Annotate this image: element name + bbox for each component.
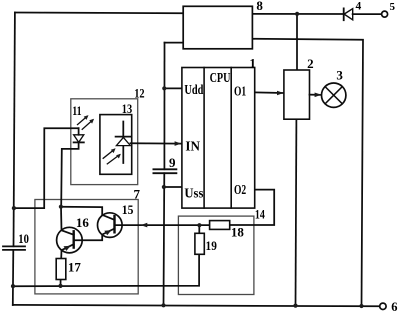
wire: base line from resistor 18 to transistor 15 — [115, 224, 210, 226]
wire: block 2 bottom down to bottom rail — [295, 119, 298, 305]
node: bus / bottom rail — [161, 303, 165, 307]
svg-text:8: 8 — [256, 0, 263, 13]
wire: upper rail from vertical bus to block 8 — [165, 42, 184, 44]
capacitor C10 — [3, 246, 25, 250]
wire: left border vertical (top rail down to bottom rail, gap at C10) — [14, 13, 15, 247]
wire: transistor 15 emitter to transistor 16 base — [74, 234, 102, 240]
svg-text:10: 10 — [18, 231, 29, 246]
box 12 (optocoupler enclosure) — [71, 99, 138, 185]
svg-text:5: 5 — [390, 1, 396, 13]
wire: top rail node down to block 2 — [296, 14, 298, 70]
svg-text:15: 15 — [122, 202, 134, 217]
node: collector junction — [59, 205, 63, 209]
wire: diode 4 to terminal 5 — [353, 13, 382, 15]
svg-text:6: 6 — [391, 300, 397, 313]
box 13 (photodiode enclosure) — [100, 115, 132, 175]
node: top rail / block 2 — [295, 12, 299, 16]
wire: ground line left with resistor 19 bottom lead — [13, 254, 199, 286]
box 14 (resistor network enclosure) — [178, 216, 254, 294]
transistor Q15 — [98, 213, 123, 238]
arrowhead: block 2 to lamp 3 — [310, 94, 321, 96]
wire: O2 route to resistor 18 — [230, 190, 274, 225]
resistor R18 — [210, 221, 230, 230]
wire: top rail left segment — [15, 12, 183, 15]
wire: top rail right segment to diode 4 — [252, 13, 343, 15]
terminal 6 — [380, 303, 386, 309]
wire: upper rail from block 8 right, down right side to bottom rail — [252, 39, 363, 306]
svg-text:3: 3 — [336, 68, 343, 83]
svg-text:14: 14 — [255, 207, 265, 222]
wire: Udd pin tap — [164, 87, 182, 89]
wire: resistor 17 bottom lead — [60, 280, 62, 286]
block 2 — [284, 70, 310, 119]
node: left border / ground line — [11, 284, 15, 288]
block 8 — [183, 6, 252, 49]
box 7 (transistor stage enclosure) — [35, 200, 138, 294]
wire: middle vertical bus (lower part, cap 9 to bottom rail) — [163, 173, 166, 305]
node: right rail / bottom rail — [359, 304, 363, 308]
photodiode in box 13 — [103, 122, 131, 164]
svg-text:CPU: CPU — [210, 70, 231, 85]
svg-text:19: 19 — [206, 238, 218, 253]
svg-text:2: 2 — [307, 56, 314, 71]
node: R18/R19 junction — [197, 223, 201, 227]
wire: transistor 16 emitter to resistor 17 — [60, 250, 62, 258]
terminal 5 — [382, 11, 388, 17]
svg-text:9: 9 — [169, 155, 176, 170]
svg-text:IN: IN — [185, 138, 200, 153]
svg-text:7: 7 — [134, 186, 141, 201]
arrowhead: base line into box 7 — [141, 223, 148, 228]
wire: O1 to block 2 — [255, 91, 283, 94]
transistor Q16 — [57, 227, 83, 253]
svg-text:O1: O1 — [234, 84, 246, 99]
svg-text:Udd: Udd — [184, 82, 203, 97]
diode 4 — [344, 8, 353, 20]
svg-text:11: 11 — [72, 103, 81, 118]
wire: transistor 16 collector up to node — [60, 207, 63, 231]
lamp 3 — [322, 83, 346, 107]
wire: bottom rail to terminal 6 — [13, 305, 380, 306]
svg-text:17: 17 — [68, 260, 82, 275]
wire: resistor 19 top lead — [198, 225, 200, 233]
capacitor C9 — [153, 169, 176, 173]
svg-text:O2: O2 — [234, 182, 246, 197]
resistor R19 — [195, 233, 204, 254]
arrowhead: IN pin — [175, 141, 182, 146]
svg-text:16: 16 — [76, 215, 90, 230]
wire: Uss pin tap — [164, 186, 182, 188]
svg-text:Uss: Uss — [184, 185, 203, 200]
resistor R17 — [56, 259, 66, 280]
node: Udd tap — [162, 86, 166, 90]
wire: LED 11 feed from left border — [14, 128, 79, 208]
LED 11 — [74, 115, 95, 142]
node: R17 on ground line — [58, 284, 62, 288]
CPU U1 block — [182, 68, 255, 209]
svg-text:13: 13 — [122, 101, 133, 116]
wire: middle vertical bus (upper part, to cap 9) — [163, 43, 165, 170]
svg-text:12: 12 — [134, 85, 144, 100]
wire: node to transistor 15 collector — [61, 207, 102, 215]
wire: IN input line — [131, 142, 181, 144]
svg-text:1: 1 — [249, 55, 256, 70]
node: left border / LED feed — [12, 206, 16, 210]
wire: LED 11 cathode route down to node — [61, 142, 78, 206]
svg-text:4: 4 — [356, 1, 362, 13]
arrowhead: O1 to block 2 — [277, 91, 284, 96]
svg-text:18: 18 — [231, 224, 245, 239]
node: block 2 line / bottom rail — [293, 304, 297, 308]
node: Uss tap — [162, 185, 166, 189]
